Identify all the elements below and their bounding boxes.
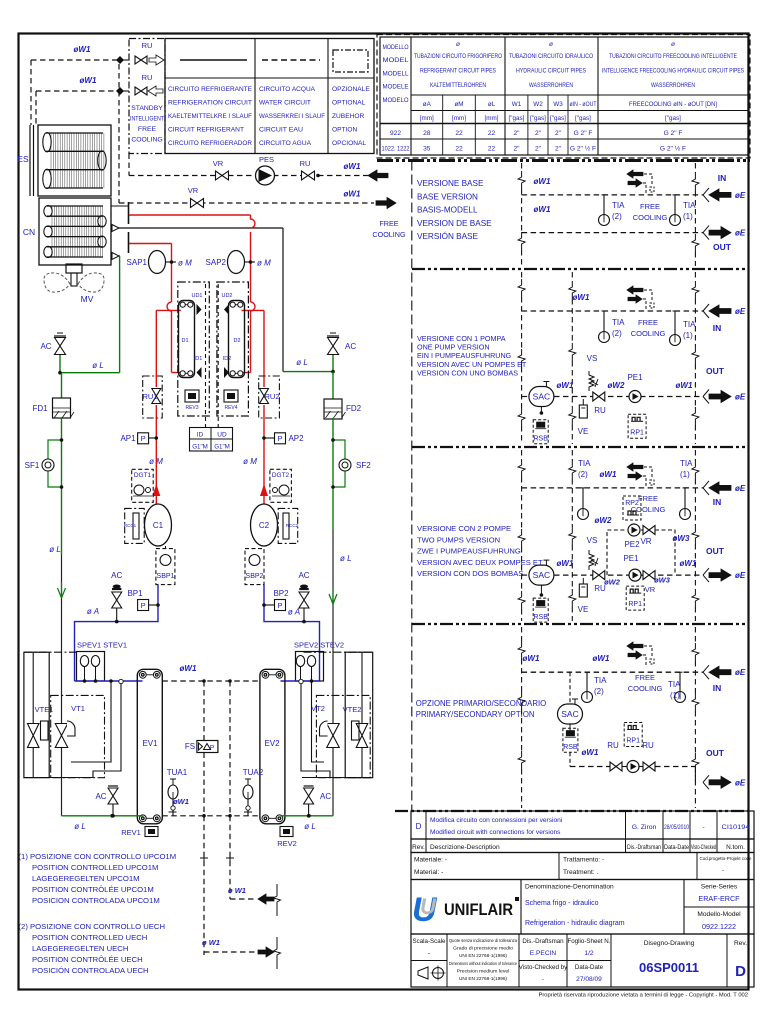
svg-text:OUT: OUT <box>706 546 725 556</box>
svg-text:UD: UD <box>217 432 227 439</box>
svg-text:ZUBEHOR: ZUBEHOR <box>332 113 364 120</box>
svg-text:["gas]: ["gas] <box>550 115 566 122</box>
svg-text:UD2: UD2 <box>221 293 232 299</box>
svg-text:0922.1222: 0922.1222 <box>702 922 736 931</box>
svg-text:1/2: 1/2 <box>584 950 593 957</box>
svg-text:ø: ø <box>549 41 553 48</box>
svg-text:W2: W2 <box>533 101 543 108</box>
svg-text:Modified circuit with connecti: Modified circuit with connections for ve… <box>430 829 561 836</box>
svg-text:POSITION CONTRÔLÉE UPCO1M: POSITION CONTRÔLÉE UPCO1M <box>32 885 154 894</box>
svg-text:(2): (2) <box>594 687 604 696</box>
svg-text:Visto-Checked: Visto-Checked <box>691 845 716 851</box>
svg-text:OPTIONAL: OPTIONAL <box>332 100 366 107</box>
svg-text:TIA: TIA <box>668 680 681 689</box>
svg-text:AC: AC <box>298 571 309 580</box>
svg-text:D2: D2 <box>233 338 240 344</box>
svg-text:ø L: ø L <box>304 822 316 831</box>
svg-text:ø A: ø A <box>288 608 300 617</box>
svg-text:WASSERROHREN: WASSERROHREN <box>529 82 573 89</box>
svg-text:["gas]: ["gas] <box>509 115 525 122</box>
svg-text:SAC: SAC <box>561 709 578 719</box>
svg-text:CN: CN <box>23 227 35 237</box>
svg-text:AC: AC <box>320 792 331 801</box>
svg-text:D: D <box>735 963 746 980</box>
svg-text:VTE2: VTE2 <box>343 705 362 714</box>
svg-text:KALTEMITTELROHREN: KALTEMITTELROHREN <box>430 82 486 89</box>
svg-text:FD1: FD1 <box>32 404 48 413</box>
svg-text:øW1: øW1 <box>680 559 697 568</box>
svg-text:TIA: TIA <box>612 318 625 327</box>
svg-text:RU: RU <box>607 741 619 750</box>
svg-text:TWO PUMPS VERSION: TWO PUMPS VERSION <box>417 535 500 544</box>
svg-text:REFRIGERATION CIRCUIT: REFRIGERATION CIRCUIT <box>168 100 252 107</box>
svg-text:MODELO: MODELO <box>383 97 409 104</box>
svg-text:ø L: ø L <box>92 361 104 370</box>
svg-text:VERSION DE BASE: VERSION DE BASE <box>417 219 492 228</box>
svg-text:FREECOOLING øIN - øOUT [DN]: FREECOOLING øIN - øOUT [DN] <box>629 101 717 108</box>
svg-text:FD2: FD2 <box>346 404 362 413</box>
svg-text:["gas]: ["gas] <box>665 115 681 122</box>
svg-text:VE: VE <box>578 427 589 436</box>
svg-text:RSB: RSB <box>533 614 548 621</box>
svg-text:["gas]: ["gas] <box>530 115 546 122</box>
svg-text:RU: RU <box>142 41 153 50</box>
svg-text:OPZIONE PRIMARIO/SECONDARIO: OPZIONE PRIMARIO/SECONDARIO <box>416 699 546 708</box>
svg-text:VERSIONE CON 2 POMPE: VERSIONE CON 2 POMPE <box>417 524 511 533</box>
svg-text:VE: VE <box>578 605 589 614</box>
svg-text:SPEV1 STEV1: SPEV1 STEV1 <box>77 641 127 650</box>
svg-text:MODELE: MODELE <box>383 84 409 91</box>
svg-text:UNI EN 22768-1(1996): UNI EN 22768-1(1996) <box>459 953 507 958</box>
svg-text:VS: VS <box>587 536 598 545</box>
svg-text:Serie-Series: Serie-Series <box>701 884 738 891</box>
svg-text:G1"M: G1"M <box>214 444 230 451</box>
svg-text:øW2: øW2 <box>595 516 612 525</box>
svg-text:2": 2" <box>555 130 562 137</box>
svg-text:PRIMARY/SECONDARY OPTION: PRIMARY/SECONDARY OPTION <box>416 710 535 719</box>
svg-text:WATER CIRCUIT: WATER CIRCUIT <box>259 100 311 107</box>
svg-text:ø: ø <box>671 41 675 48</box>
svg-text:-: - <box>722 868 724 874</box>
svg-text:CI10194: CI10194 <box>722 824 751 831</box>
svg-text:VERSION AVEC DEUX POMPES ET: VERSION AVEC DEUX POMPES ET <box>417 558 543 567</box>
svg-text:(2): (2) <box>612 212 622 221</box>
svg-text:(1): (1) <box>683 331 693 340</box>
svg-text:VTE1: VTE1 <box>35 705 54 714</box>
svg-text:2": 2" <box>555 146 562 153</box>
svg-text:SF2: SF2 <box>356 461 371 470</box>
svg-text:TIA: TIA <box>594 676 607 685</box>
svg-text:PES: PES <box>259 155 274 164</box>
svg-text:DGT2: DGT2 <box>272 472 290 479</box>
svg-text:DGT1: DGT1 <box>134 472 152 479</box>
svg-text:RCC2: RCC2 <box>286 523 299 528</box>
svg-text:UNI EN 22768-1(1996): UNI EN 22768-1(1996) <box>459 976 507 981</box>
svg-text:AP2: AP2 <box>288 434 304 443</box>
svg-text:Precision medium level: Precision medium level <box>457 968 510 973</box>
svg-text:TUA1: TUA1 <box>167 768 188 777</box>
svg-text:PE1: PE1 <box>627 373 643 382</box>
svg-text:Rev.: Rev. <box>412 844 425 851</box>
svg-text:øE: øE <box>735 668 746 677</box>
svg-text:øE: øE <box>735 571 746 580</box>
svg-text:øE: øE <box>735 778 746 787</box>
svg-text:P: P <box>210 745 214 752</box>
svg-text:øW1: øW1 <box>180 664 197 673</box>
svg-text:W3: W3 <box>553 101 563 108</box>
svg-text:ø M: ø M <box>178 259 192 268</box>
svg-text:TIA: TIA <box>578 459 591 468</box>
svg-text:P: P <box>141 601 146 610</box>
svg-text:øW1: øW1 <box>80 76 97 85</box>
svg-text:RU: RU <box>142 73 153 82</box>
svg-text:øE: øE <box>735 191 746 200</box>
svg-text:FS: FS <box>185 742 195 751</box>
svg-text:WASSERROHREN: WASSERROHREN <box>651 82 695 89</box>
svg-text:SAC: SAC <box>533 570 550 580</box>
svg-text:øW1: øW1 <box>600 470 617 479</box>
svg-text:(1): (1) <box>680 470 690 479</box>
svg-text:2": 2" <box>513 130 520 137</box>
svg-text:(2) POSIZIONE CON CONTROLLO UE: (2) POSIZIONE CON CONTROLLO UECH <box>19 922 166 931</box>
svg-text:P: P <box>141 434 146 443</box>
svg-text:C2: C2 <box>259 521 270 530</box>
svg-text:øE: øE <box>735 393 746 402</box>
svg-text:(1) POSIZIONE CON CONTROLLO UP: (1) POSIZIONE CON CONTROLLO UPCO1M <box>19 852 177 861</box>
svg-text:VR: VR <box>213 159 224 168</box>
svg-text:UD1: UD1 <box>191 293 202 299</box>
svg-text:OUT: OUT <box>706 748 725 758</box>
svg-text:W1: W1 <box>512 101 522 108</box>
svg-text:ID1: ID1 <box>194 356 203 362</box>
svg-text:LAGEGEREGELTEN UECH: LAGEGEREGELTEN UECH <box>32 944 128 953</box>
svg-text:AC: AC <box>95 792 106 801</box>
svg-text:øW1: øW1 <box>593 654 610 663</box>
svg-text:(1): (1) <box>683 212 693 221</box>
svg-text:øIN - øOUT: øIN - øOUT <box>570 101 597 108</box>
svg-text:INTELLIGENCE FREECOOLING HYDRA: INTELLIGENCE FREECOOLING HYDRAULIC CIRCU… <box>602 68 744 75</box>
svg-text:øW1: øW1 <box>523 654 540 663</box>
svg-text:REV4: REV4 <box>224 405 237 411</box>
svg-text:OUT: OUT <box>713 242 732 252</box>
svg-text:VR: VR <box>645 585 656 594</box>
svg-text:[mm]: [mm] <box>420 115 434 122</box>
svg-text:HYDRAULIC CIRCUIT PIPES: HYDRAULIC CIRCUIT PIPES <box>516 68 586 75</box>
svg-text:øW1: øW1 <box>676 381 693 390</box>
svg-text:øE: øE <box>735 229 746 238</box>
svg-text:06SP0011: 06SP0011 <box>639 960 699 975</box>
svg-text:G1"M: G1"M <box>192 444 208 451</box>
svg-text:22: 22 <box>488 130 496 137</box>
svg-text:VT2: VT2 <box>311 704 325 713</box>
svg-text:FREE: FREE <box>638 318 658 327</box>
svg-text:P: P <box>277 434 282 443</box>
svg-text:Data-Date: Data-Date <box>575 964 604 971</box>
svg-text:(2): (2) <box>578 470 588 479</box>
svg-text:øW2: øW2 <box>604 578 621 587</box>
svg-text:(2): (2) <box>612 329 622 338</box>
svg-text:øW1: øW1 <box>557 381 574 390</box>
svg-text:BP1: BP1 <box>127 589 143 598</box>
svg-text:COOLING: COOLING <box>628 684 663 693</box>
svg-text:ø M: ø M <box>149 457 163 466</box>
svg-text:øL: øL <box>488 101 496 108</box>
svg-text:TIA: TIA <box>683 320 696 329</box>
svg-text:øW3: øW3 <box>654 576 671 585</box>
svg-text:ø W1: ø W1 <box>228 886 246 895</box>
svg-text:2": 2" <box>535 146 542 153</box>
svg-text:2": 2" <box>513 146 520 153</box>
svg-text:øA: øA <box>423 101 432 108</box>
svg-text:PE2: PE2 <box>624 540 640 549</box>
svg-text:LAGEGEREGELTEN UPCO1M: LAGEGEREGELTEN UPCO1M <box>32 874 140 883</box>
svg-text:PE1: PE1 <box>623 554 639 563</box>
svg-text:35: 35 <box>423 146 431 153</box>
svg-text:28: 28 <box>423 130 431 137</box>
svg-text:RU1: RU1 <box>142 392 157 401</box>
svg-text:FREE: FREE <box>640 202 660 211</box>
svg-text:G 2" ½ F: G 2" ½ F <box>570 145 596 153</box>
svg-text:RP2: RP2 <box>625 500 639 507</box>
svg-text:øW1: øW1 <box>173 797 189 806</box>
svg-text:ø L: ø L <box>74 822 86 831</box>
svg-text:COOLING: COOLING <box>131 137 162 144</box>
svg-text:øW1: øW1 <box>582 748 599 757</box>
svg-text:ø L: ø L <box>49 545 61 554</box>
svg-text:FREE: FREE <box>379 219 398 228</box>
svg-text:MODELLO: MODELLO <box>383 44 409 51</box>
svg-text:øW1: øW1 <box>557 559 574 568</box>
svg-text:CIRCUITO AGUA: CIRCUITO AGUA <box>259 140 312 147</box>
svg-text:OPZIONALE: OPZIONALE <box>332 86 370 93</box>
svg-text:RCC1: RCC1 <box>124 523 137 528</box>
svg-text:øW1: øW1 <box>344 162 361 171</box>
svg-text:øW1: øW1 <box>573 293 590 302</box>
svg-text:EV2: EV2 <box>264 739 280 748</box>
svg-text:Proprietà riservata riproduzio: Proprietà riservata riproduzione vietata… <box>538 993 748 999</box>
svg-text:-: - <box>702 824 704 831</box>
svg-text:TUBAZIONI CIRCUITO FRIGORIFERO: TUBAZIONI CIRCUITO FRIGORIFERO <box>414 53 502 60</box>
svg-text:27/08/09: 27/08/09 <box>576 976 602 983</box>
svg-text:SAP2: SAP2 <box>206 258 227 267</box>
svg-text:REV3: REV3 <box>185 405 198 411</box>
svg-text:N.tom.: N.tom. <box>726 844 745 851</box>
svg-text:POSICIÓN CONTROLADA UECH: POSICIÓN CONTROLADA UECH <box>32 966 149 975</box>
svg-text:Modello-Model: Modello-Model <box>697 911 741 918</box>
svg-text:RU: RU <box>642 741 654 750</box>
svg-text:ø M: ø M <box>257 259 271 268</box>
svg-text:D: D <box>416 822 422 831</box>
svg-text:REFRIGERANT CIRCUIT PIPES: REFRIGERANT CIRCUIT PIPES <box>420 68 496 75</box>
svg-text:MV: MV <box>81 294 94 304</box>
svg-text:Dimensions without indication: Dimensions without indication of toleran… <box>449 961 517 966</box>
svg-text:øM: øM <box>454 101 463 108</box>
svg-text:Cod.progetto-Projekt code: Cod.progetto-Projekt code <box>700 856 752 862</box>
svg-text:AC: AC <box>111 571 122 580</box>
svg-text:CIRCUITO REFRIGERANTE: CIRCUITO REFRIGERANTE <box>168 86 253 93</box>
svg-text:ERAF-ERCF: ERAF-ERCF <box>698 894 740 903</box>
svg-text:POSITION CONTROLLED UPCO1M: POSITION CONTROLLED UPCO1M <box>32 863 158 872</box>
svg-text:Materiale: -: Materiale: - <box>414 857 447 864</box>
svg-text:SBP1: SBP1 <box>157 573 175 580</box>
svg-text:ZWE I PUMPEAUSFUHRUNG: ZWE I PUMPEAUSFUHRUNG <box>417 547 521 556</box>
svg-text:922: 922 <box>390 130 401 137</box>
svg-text:SPEV2 STEV2: SPEV2 STEV2 <box>294 641 344 650</box>
svg-text:AC: AC <box>345 342 356 351</box>
svg-text:SF1: SF1 <box>25 461 40 470</box>
svg-text:ø L: ø L <box>296 358 308 367</box>
svg-text:IN: IN <box>713 683 722 693</box>
svg-text:REV2: REV2 <box>277 839 297 848</box>
svg-text:RSB: RSB <box>563 744 578 751</box>
svg-text:Disegno-Drawing: Disegno-Drawing <box>644 940 695 947</box>
svg-text:-: - <box>428 950 430 957</box>
svg-text:VR: VR <box>188 186 199 195</box>
svg-text:POSICION CONTROLADA UPCO1M: POSICION CONTROLADA UPCO1M <box>32 896 160 905</box>
svg-text:[mm]: [mm] <box>452 115 466 122</box>
svg-text:AC: AC <box>40 342 51 351</box>
svg-text:øE: øE <box>735 307 746 316</box>
svg-text:C1: C1 <box>153 521 164 530</box>
svg-text:SBP2: SBP2 <box>246 573 264 580</box>
svg-text:TUBAZIONI CIRCUITO FREECOOLING: TUBAZIONI CIRCUITO FREECOOLING INTELLIGE… <box>609 53 737 60</box>
svg-text:RU: RU <box>594 406 606 415</box>
svg-text:FREE: FREE <box>635 673 655 682</box>
svg-text:POSITION CONTRÔLÉE UECH: POSITION CONTRÔLÉE UECH <box>32 955 143 964</box>
svg-text:øE: øE <box>735 484 746 493</box>
svg-text:(1): (1) <box>670 691 680 700</box>
svg-text:28/05/2010: 28/05/2010 <box>664 824 689 831</box>
svg-text:Treatment: .: Treatment: . <box>563 869 598 876</box>
svg-text:EV1: EV1 <box>142 739 158 748</box>
svg-text:Quote senza indicazione di tol: Quote senza indicazione di tolleranza <box>449 938 517 943</box>
svg-text:G 2" F: G 2" F <box>574 130 593 137</box>
svg-text:TUBAZIONI CIRCUITO IDRAULICO: TUBAZIONI CIRCUITO IDRAULICO <box>509 53 593 60</box>
svg-text:OPCIONAL: OPCIONAL <box>332 140 366 147</box>
svg-text:E.PECIN: E.PECIN <box>530 950 557 957</box>
svg-text:Visto-Checked by: Visto-Checked by <box>519 964 568 971</box>
svg-text:øW1: øW1 <box>74 45 91 54</box>
svg-text:VERSION CON UNO BOMBAS: VERSION CON UNO BOMBAS <box>417 368 518 377</box>
svg-text:SAC: SAC <box>533 392 550 402</box>
svg-text:VS: VS <box>587 354 598 363</box>
svg-text:Trattamento: -: Trattamento: - <box>563 857 604 864</box>
svg-text:BASE VERSION: BASE VERSION <box>417 192 478 201</box>
svg-text:ø L: ø L <box>340 554 352 563</box>
svg-text:VR: VR <box>640 537 651 546</box>
svg-text:IN: IN <box>713 497 722 507</box>
svg-text:WASSERKREI I SLAUF: WASSERKREI I SLAUF <box>259 113 325 120</box>
svg-text:VERSIÓN BASE: VERSIÓN BASE <box>417 231 479 241</box>
svg-text:TIA: TIA <box>680 459 693 468</box>
svg-text:BP2: BP2 <box>273 589 289 598</box>
svg-text:G 2" ½ F: G 2" ½ F <box>660 145 686 153</box>
svg-text:22: 22 <box>455 146 463 153</box>
svg-text:Refrigeration - hidraulic diag: Refrigeration - hidraulic diagram <box>525 920 625 927</box>
svg-text:KAELTEMITTELKRE I SLAUF: KAELTEMITTELKRE I SLAUF <box>168 113 252 120</box>
svg-text:22: 22 <box>455 130 463 137</box>
svg-text:G. Ziron: G. Ziron <box>632 824 657 831</box>
svg-text:Rev.: Rev. <box>734 940 747 947</box>
svg-text:ø A: ø A <box>87 607 99 616</box>
svg-text:VT1: VT1 <box>71 704 85 713</box>
svg-text:TIA: TIA <box>683 201 696 210</box>
svg-text:INTELLIGENT: INTELLIGENT <box>130 116 164 123</box>
svg-text:ID2: ID2 <box>223 356 232 362</box>
svg-text:22: 22 <box>488 146 496 153</box>
svg-text:UNIFLAIR: UNIFLAIR <box>444 901 513 919</box>
svg-text:RU2: RU2 <box>264 392 279 401</box>
svg-text:ø W1: ø W1 <box>202 938 220 947</box>
svg-text:RU: RU <box>300 159 311 168</box>
svg-text:RSB: RSB <box>533 436 548 443</box>
svg-text:Data-Date: Data-Date <box>664 844 689 851</box>
svg-text:[mm]: [mm] <box>485 115 499 122</box>
svg-text:ø M: ø M <box>243 457 257 466</box>
svg-text:TIA: TIA <box>612 201 625 210</box>
svg-text:Modifica circuito con connessi: Modifica circuito con connessioni per ve… <box>430 817 563 824</box>
svg-text:RP1: RP1 <box>626 738 640 745</box>
svg-text:RP1: RP1 <box>630 429 644 436</box>
svg-text:ID: ID <box>197 432 204 439</box>
svg-text:AP1: AP1 <box>120 434 136 443</box>
svg-text:IN: IN <box>713 323 722 333</box>
svg-text:G 2" F: G 2" F <box>664 130 683 137</box>
svg-text:VERSIONE BASE: VERSIONE BASE <box>417 179 484 188</box>
svg-text:MODEL: MODEL <box>383 57 410 64</box>
svg-text:Dis.-Draftsman: Dis.-Draftsman <box>627 844 661 851</box>
svg-text:["gas]: ["gas] <box>575 115 591 122</box>
svg-text:Dis.-Draftsman: Dis.-Draftsman <box>522 938 564 945</box>
svg-text:OPTION: OPTION <box>332 127 358 134</box>
svg-text:D1: D1 <box>181 338 188 344</box>
svg-text:øW1: øW1 <box>534 177 551 186</box>
svg-text:COOLING: COOLING <box>631 329 666 338</box>
svg-text:VERSION CON DOS BOMBAS: VERSION CON DOS BOMBAS <box>417 569 523 578</box>
svg-text:Descrizione-Description: Descrizione-Description <box>430 844 500 851</box>
svg-text:P: P <box>277 601 282 610</box>
svg-text:ES: ES <box>17 154 29 164</box>
svg-text:OUT: OUT <box>706 366 725 376</box>
svg-text:øW2: øW2 <box>608 381 625 390</box>
svg-text:STANDBY: STANDBY <box>131 105 163 112</box>
svg-text:IN: IN <box>718 173 727 183</box>
svg-text:CIRCUIT REFRIGERANT: CIRCUIT REFRIGERANT <box>168 127 244 134</box>
svg-text:CIRCUITO REFRIGERADOR: CIRCUITO REFRIGERADOR <box>168 140 252 147</box>
svg-text:-: - <box>542 976 544 983</box>
svg-text:CIRCUITO ACQUA: CIRCUITO ACQUA <box>259 86 316 93</box>
svg-text:Schema frigo - idraulico: Schema frigo - idraulico <box>525 900 599 907</box>
svg-text:ø: ø <box>456 41 460 48</box>
svg-text:Grado di precisione medio: Grado di precisione medio <box>453 946 513 951</box>
svg-text:RP1: RP1 <box>628 601 642 608</box>
svg-text:øW3: øW3 <box>673 534 690 543</box>
svg-text:Denominazione-Denomination: Denominazione-Denomination <box>525 884 614 891</box>
svg-text:COOLING: COOLING <box>633 213 668 222</box>
svg-text:COOLING: COOLING <box>372 230 406 239</box>
svg-text:Foglio-Sheet N.: Foglio-Sheet N. <box>568 938 611 945</box>
svg-text:REV1: REV1 <box>121 828 141 837</box>
svg-text:BASIS-MODELL: BASIS-MODELL <box>417 206 478 215</box>
svg-text:1022. 1222: 1022. 1222 <box>382 146 410 153</box>
svg-text:øW1: øW1 <box>344 190 361 199</box>
svg-text:øW1: øW1 <box>534 205 551 214</box>
svg-text:Scala-Scale: Scala-Scale <box>412 938 446 945</box>
svg-text:POSITION CONTROLLED UECH: POSITION CONTROLLED UECH <box>32 933 147 942</box>
svg-text:FREE: FREE <box>138 126 157 133</box>
svg-text:2": 2" <box>535 130 542 137</box>
svg-text:CIRCUIT EAU: CIRCUIT EAU <box>259 127 303 134</box>
